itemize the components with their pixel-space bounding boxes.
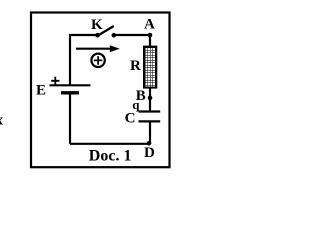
wire battery to bottom-left corner [69, 93, 71, 144]
current direction arrow [76, 45, 120, 52]
bottom wire D to battery branch [70, 143, 150, 145]
svg-text:R: R [130, 58, 141, 74]
svg-text:A: A [144, 17, 155, 33]
wire node B to capacitor [149, 98, 151, 112]
node B [148, 96, 153, 101]
svg-text:D: D [144, 145, 155, 161]
plus sign battery polarity [51, 77, 59, 85]
node A [148, 33, 153, 38]
battery E negative plate [61, 91, 79, 94]
capacitor C top plate [139, 110, 161, 112]
wire node A to resistor [149, 35, 151, 47]
switch K [95, 26, 116, 38]
battery E positive plate [50, 84, 91, 86]
wire resistor to node B [149, 87, 151, 98]
resistor R [144, 47, 156, 88]
circled plus symbol [91, 54, 104, 67]
svg-text:C: C [125, 110, 136, 126]
svg-text:Doc. 1: Doc. 1 [89, 147, 132, 164]
node D [147, 141, 152, 146]
svg-text:E: E [36, 83, 46, 99]
svg-text:x: x [0, 113, 4, 129]
svg-text:K: K [91, 17, 103, 33]
frame border Doc. 1 box [31, 13, 170, 168]
wire top-left corner to switch [70, 35, 98, 85]
capacitor C bottom plate [139, 120, 161, 122]
wire capacitor to node D [149, 121, 151, 143]
wire switch to node A [114, 34, 150, 36]
